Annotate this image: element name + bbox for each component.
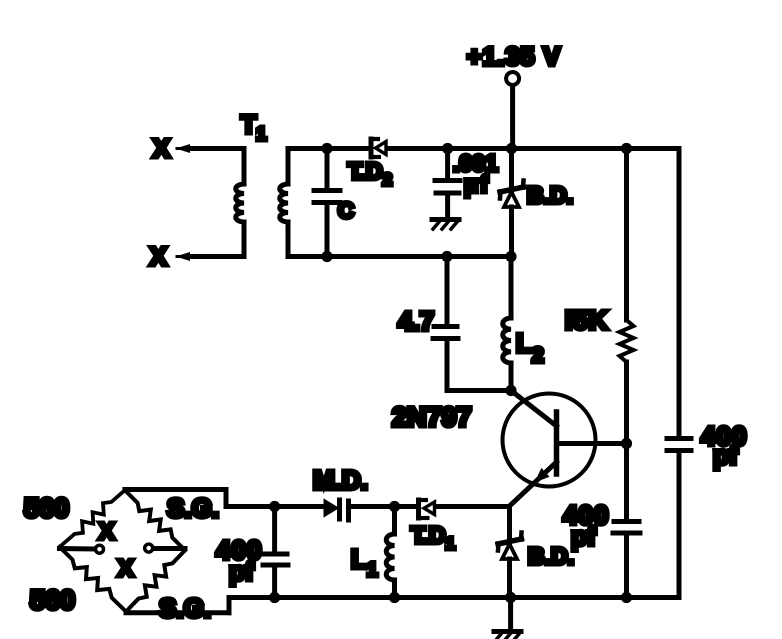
svg-text:X: X [99,518,115,544]
mixer diode M.D. [313,465,395,523]
node rail1-.001 [442,143,453,154]
svg-text:X: X [153,135,170,163]
svg-text:+1.35 V: +1.35 V [467,43,561,71]
node emitter-rail [505,592,516,603]
svg-text:C: C [338,198,354,223]
bridge resistor 560 bottom-left [30,547,126,615]
inductor L2 [503,257,544,391]
backward diode B.D. bottom [498,533,574,598]
bridge output terminal left [60,545,104,553]
svg-text:2N797: 2N797 [392,402,472,432]
svg-text:pf: pf [229,556,254,586]
svg-text:B.D.: B.D. [528,543,574,569]
capacitor .001 uf [435,149,498,218]
node rail2-L2 [505,251,516,262]
capacitor 4.7 [398,257,511,391]
node 400pf-left-top [269,501,280,512]
node collector [505,385,516,396]
node rail1-15K [621,143,632,154]
node base-15K [621,438,632,449]
node L1-top [389,501,400,512]
bridge resistor 560 top-left [24,490,125,547]
tunnel diode T.D.1 [395,498,510,554]
svg-text:560: 560 [24,493,69,523]
svg-text:S.G.: S.G. [159,593,211,623]
wire right vertical [677,149,682,437]
wire bridge top to M.D. [125,487,226,492]
bridge strain gauge S.G. top-right [125,490,219,550]
wire top rail [288,146,366,151]
node rail1-C [321,143,332,154]
svg-text:pf: pf [571,521,596,551]
transistor Q1 2N797 [392,391,627,507]
power +1.35V terminal [467,43,561,149]
svg-text:B.D.: B.D. [527,182,573,208]
backward diode B.D. top [500,149,573,257]
capacitor C [314,149,354,257]
transformer T1 [236,111,288,257]
node 400pf-mid-bottom [621,592,632,603]
svg-text:X: X [118,555,134,581]
node rail2-C [321,251,332,262]
ground (chassis) under .001 [432,220,459,230]
capacitor 400pf left [216,507,288,598]
resistor 15K [565,149,634,444]
svg-text:S.G.: S.G. [167,493,219,523]
bridge strain gauge S.G. bottom-right [126,550,211,623]
svg-text:I5K: I5K [565,305,608,335]
svg-text:X: X [150,243,167,271]
svg-text:4.7: 4.7 [398,306,434,336]
svg-text:M.D.: M.D. [313,465,368,495]
node rail2-4.7 [441,251,452,262]
inductor L1 [351,507,395,598]
ground main [494,598,521,639]
wire second rail [288,254,512,259]
wire emitter vertical [507,507,512,547]
node 400pf-left-bottom [269,592,280,603]
svg-text:pf: pf [713,440,738,470]
svg-text:560: 560 [30,585,75,615]
wire bottom rail [229,595,679,600]
svg-text:μf: μf [464,171,490,197]
wire bridge bottom to rail [126,610,229,615]
node rail1-supply [506,143,517,154]
node X top terminal [153,135,244,163]
tunnel diode T.D.2 [348,137,392,190]
node L1-bottom [389,592,400,603]
node X bottom terminal [150,243,244,271]
bridge output terminal right [145,544,185,552]
capacitor 400pf middle [563,444,640,598]
capacitor 400pf right [667,421,747,470]
